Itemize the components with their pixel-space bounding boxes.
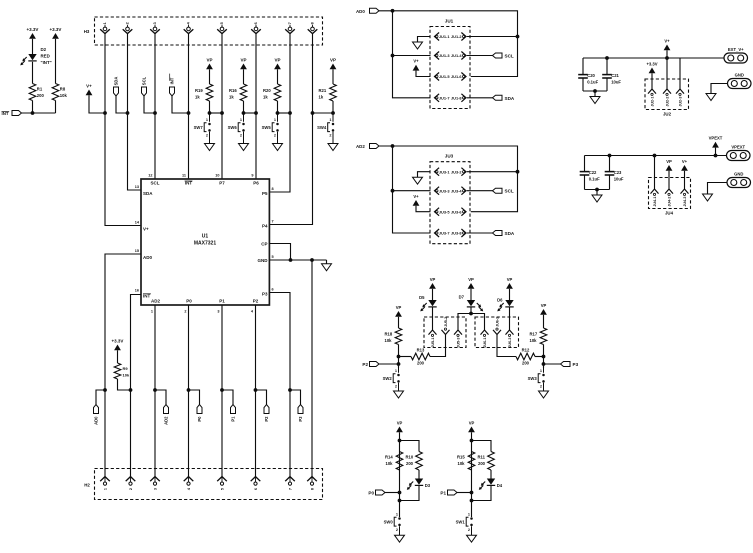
wire row4 right to SDA xyxy=(467,232,493,234)
resistor R21 1k xyxy=(330,84,337,101)
svg-text:JU5-1: JU5-1 xyxy=(431,338,435,348)
svg-text:1: 1 xyxy=(274,118,276,122)
wire xyxy=(471,470,473,517)
svg-text:+3.3V: +3.3V xyxy=(112,338,124,343)
capacitor C23 10uF xyxy=(609,156,611,172)
svg-text:2: 2 xyxy=(129,488,133,490)
junction xyxy=(103,388,107,392)
svg-text:2: 2 xyxy=(206,134,208,138)
svg-text:10k: 10k xyxy=(386,461,394,466)
svg-text:3: 3 xyxy=(217,310,219,314)
JU3 pin 4 xyxy=(461,187,466,195)
wire P3 to H2-7 xyxy=(269,293,290,477)
net stub SCL xyxy=(493,53,503,58)
svg-text:SW0: SW0 xyxy=(384,520,394,525)
svg-text:2: 2 xyxy=(126,22,130,24)
svg-text:P3: P3 xyxy=(262,292,268,297)
wire row4 right to SDA xyxy=(467,97,493,99)
resistor R13 200 xyxy=(399,356,412,358)
resistor R19 1k xyxy=(206,84,213,101)
svg-text:10k: 10k xyxy=(530,338,538,343)
jumper JU4 xyxy=(649,178,691,209)
junction xyxy=(397,355,401,359)
svg-text:VP: VP xyxy=(206,57,212,62)
junction xyxy=(398,491,402,495)
wire P7 column xyxy=(221,45,223,179)
wire SCL column xyxy=(154,45,156,179)
wire row2 right to SCL xyxy=(467,55,493,57)
svg-text:P4: P4 xyxy=(262,224,268,229)
svg-text:VP: VP xyxy=(330,57,336,62)
junction xyxy=(187,111,191,115)
junction xyxy=(595,188,599,192)
svg-text:R17: R17 xyxy=(530,332,538,337)
svg-text:P0: P0 xyxy=(368,491,374,496)
resistor R8 10k xyxy=(52,84,59,101)
svg-text:SW2: SW2 xyxy=(383,376,393,381)
svg-text:P6: P6 xyxy=(253,181,259,186)
resistor R12 200 xyxy=(497,335,516,357)
svg-text:JU4: JU4 xyxy=(665,211,674,216)
resistor R20 1k xyxy=(274,84,281,101)
wire xyxy=(711,84,728,94)
svg-text:JU3-3: JU3-3 xyxy=(439,188,450,193)
op-amp U1 MAX7321 body xyxy=(141,179,269,305)
wire xyxy=(398,345,400,369)
wire xyxy=(430,335,446,357)
svg-text:H3: H3 xyxy=(84,29,90,34)
svg-text:GND: GND xyxy=(735,72,744,77)
wire GND row xyxy=(269,259,326,261)
JU1 pin 8 xyxy=(461,94,466,102)
junction xyxy=(187,388,191,392)
svg-text:JU3-5: JU3-5 xyxy=(439,209,450,214)
junction xyxy=(398,499,402,503)
svg-text:12: 12 xyxy=(148,174,152,178)
svg-text:6: 6 xyxy=(254,22,258,24)
net stub P0 xyxy=(189,390,200,405)
JU1 pin 3 xyxy=(435,52,440,60)
switch SW0 xyxy=(399,501,401,517)
svg-text:8: 8 xyxy=(311,22,315,24)
svg-text:VP: VP xyxy=(468,277,474,282)
svg-text:P0: P0 xyxy=(197,416,202,422)
wire V+ rail xyxy=(583,57,724,59)
H2 pin 8 xyxy=(307,477,317,482)
H2 pin 4 xyxy=(184,477,194,482)
wire xyxy=(32,101,34,114)
svg-text:C22: C22 xyxy=(589,170,597,175)
JU5 pin 2 xyxy=(442,330,450,335)
svg-text:200: 200 xyxy=(406,461,414,466)
svg-text:AD2: AD2 xyxy=(356,144,365,149)
ground xyxy=(413,177,423,184)
junction xyxy=(398,439,402,443)
svg-text:JU3-8: JU3-8 xyxy=(451,231,462,236)
svg-text:200: 200 xyxy=(37,93,45,98)
wire xyxy=(543,345,545,369)
svg-text:VP: VP xyxy=(666,159,672,164)
junction xyxy=(276,111,280,115)
svg-text:P7: P7 xyxy=(219,181,225,186)
net stub SDA xyxy=(493,231,503,236)
wire P4 column xyxy=(269,45,312,225)
net stub P3 (middle) xyxy=(544,363,561,365)
wire cap ground bus xyxy=(585,189,610,191)
svg-text:JU1-5: JU1-5 xyxy=(439,74,450,79)
wire xyxy=(55,101,57,114)
svg-text:R16: R16 xyxy=(229,88,237,93)
ground xyxy=(539,391,549,398)
svg-text:200: 200 xyxy=(417,361,425,366)
capacitor C20 0.1uF xyxy=(582,58,584,75)
svg-text:2: 2 xyxy=(274,134,276,138)
svg-text:R10: R10 xyxy=(406,455,414,460)
svg-text:2: 2 xyxy=(395,385,397,389)
JU1 pin 5 xyxy=(435,73,440,81)
resistor R10 200 xyxy=(416,452,423,471)
svg-text:0.1uF: 0.1uF xyxy=(587,80,598,85)
wire xyxy=(399,470,401,517)
svg-text:1: 1 xyxy=(151,310,153,314)
svg-text:R13: R13 xyxy=(417,348,425,353)
svg-text:SCL: SCL xyxy=(151,181,160,186)
junction xyxy=(310,258,314,262)
svg-text:SCL: SCL xyxy=(505,189,514,194)
svg-text:EXT_V+: EXT_V+ xyxy=(728,47,744,52)
wire P0 column xyxy=(188,305,190,477)
junction xyxy=(129,388,133,392)
svg-text:VP: VP xyxy=(469,420,475,425)
JU4 pin 2 xyxy=(665,189,673,194)
JU3 pin 3 xyxy=(435,187,440,195)
jumper JU6 xyxy=(475,317,519,348)
net stub SDA xyxy=(493,95,503,100)
terminal VPEXT xyxy=(727,151,751,161)
svg-text:11: 11 xyxy=(182,174,186,178)
junction xyxy=(220,388,224,392)
svg-text:VPEXT: VPEXT xyxy=(709,136,723,141)
svg-text:V+: V+ xyxy=(682,159,688,164)
JU6 pin 1 xyxy=(481,330,489,335)
svg-text:10k: 10k xyxy=(458,461,466,466)
junction xyxy=(665,56,669,60)
svg-text:R1: R1 xyxy=(37,87,43,92)
resistor R18 10k xyxy=(395,328,402,345)
JU1 pin 4 xyxy=(461,52,466,60)
svg-text:16: 16 xyxy=(135,289,139,293)
svg-text:U1: U1 xyxy=(202,234,209,240)
svg-text:SW3: SW3 xyxy=(528,376,538,381)
svg-text:JU3-1: JU3-1 xyxy=(439,169,450,174)
svg-text:VP: VP xyxy=(240,57,246,62)
svg-text:AD2: AD2 xyxy=(163,416,168,425)
header H2 xyxy=(95,469,323,500)
svg-text:0.1uF: 0.1uF xyxy=(589,177,600,182)
svg-text:SW4: SW4 xyxy=(317,125,327,130)
ground xyxy=(394,391,404,398)
ground xyxy=(706,94,716,101)
jumper JU1 xyxy=(430,27,470,109)
svg-text:200: 200 xyxy=(522,361,530,366)
wire xyxy=(596,190,598,196)
wire D7 fork xyxy=(458,314,485,331)
svg-text:V+: V+ xyxy=(664,38,670,43)
ground (U1 GND) xyxy=(322,264,332,271)
svg-text:R14: R14 xyxy=(385,455,393,460)
junction xyxy=(391,189,395,193)
capacitor C22 0.1uF xyxy=(584,156,586,172)
svg-text:2: 2 xyxy=(396,528,398,532)
JU2 pin 1 xyxy=(648,89,656,94)
svg-text:R19: R19 xyxy=(195,88,203,93)
svg-text:JU6-3: JU6-3 xyxy=(508,338,512,348)
net stub P2 xyxy=(256,390,267,405)
junction xyxy=(254,111,258,115)
svg-text:V+: V+ xyxy=(143,227,149,232)
wire branch xyxy=(400,441,420,452)
svg-text:1: 1 xyxy=(103,488,107,490)
switch SW4 xyxy=(332,113,334,122)
svg-text:SDA: SDA xyxy=(505,231,515,236)
svg-text:JU1-3: JU1-3 xyxy=(439,53,450,58)
switch SW1 xyxy=(471,501,473,517)
JU3 pin 2 xyxy=(461,168,466,176)
svg-text:C21: C21 xyxy=(611,73,619,78)
JU1 pin 1 xyxy=(435,33,440,41)
svg-text:V+: V+ xyxy=(413,59,419,64)
svg-text:5: 5 xyxy=(220,22,224,24)
JU4 pin 1 xyxy=(654,156,656,190)
H2 pin 6 xyxy=(251,477,261,482)
svg-text:JU5-3: JU5-3 xyxy=(456,338,460,348)
svg-text:SCL: SCL xyxy=(141,76,146,85)
terminal GND (top) xyxy=(728,79,752,89)
junction xyxy=(331,111,335,115)
switch SW5 xyxy=(277,113,279,122)
wire AD2 column xyxy=(154,305,156,477)
svg-text:P1: P1 xyxy=(230,416,235,422)
svg-text:1: 1 xyxy=(396,513,398,517)
jumper JU2 xyxy=(645,79,689,110)
wire AD0 column xyxy=(105,254,141,477)
junction xyxy=(542,355,546,359)
svg-text:D7: D7 xyxy=(459,295,465,300)
svg-text:D3: D3 xyxy=(425,483,431,488)
junction xyxy=(397,362,401,366)
wire xyxy=(32,62,34,84)
svg-text:10uF: 10uF xyxy=(611,80,621,85)
ground xyxy=(703,194,713,201)
svg-text:INT: INT xyxy=(169,77,174,84)
svg-text:1: 1 xyxy=(103,22,107,24)
wire xyxy=(326,260,328,264)
svg-text:H2: H2 xyxy=(84,483,90,488)
net stub P3 (below chip) xyxy=(290,390,301,405)
svg-text:D2: D2 xyxy=(41,47,47,52)
svg-text:R20: R20 xyxy=(263,88,271,93)
wire xyxy=(209,101,211,113)
junction xyxy=(288,388,292,392)
svg-text:GND: GND xyxy=(734,171,743,176)
wire row1 left ground branch xyxy=(418,172,431,178)
jumper JU3 xyxy=(430,162,470,244)
svg-text:VP: VP xyxy=(396,305,402,310)
wire VP rail xyxy=(585,155,727,157)
svg-text:2: 2 xyxy=(540,385,542,389)
junction xyxy=(391,9,395,13)
svg-text:+3.3V: +3.3V xyxy=(50,27,62,32)
junction xyxy=(103,111,107,115)
svg-text:JU2-3: JU2-3 xyxy=(678,97,682,107)
wire xyxy=(400,486,420,501)
svg-text:VP: VP xyxy=(397,420,403,425)
svg-text:200: 200 xyxy=(478,461,486,466)
svg-text:P0: P0 xyxy=(186,299,192,304)
junction xyxy=(153,388,157,392)
junction xyxy=(714,154,718,158)
svg-text:JU1-6: JU1-6 xyxy=(451,74,462,79)
svg-text:2: 2 xyxy=(329,134,331,138)
wire V+ column xyxy=(105,45,141,226)
JU1 pin 7 xyxy=(435,94,440,102)
svg-text:P5: P5 xyxy=(262,191,268,196)
switch SW3 xyxy=(543,364,545,373)
junction xyxy=(254,388,258,392)
svg-text:5: 5 xyxy=(220,488,224,490)
junction xyxy=(391,54,395,58)
svg-text:VP: VP xyxy=(507,277,513,282)
svg-text:SW7: SW7 xyxy=(194,125,204,130)
svg-text:SDA: SDA xyxy=(143,191,153,196)
svg-text:C23: C23 xyxy=(614,170,622,175)
svg-text:JU5-2: JU5-2 xyxy=(444,317,448,327)
svg-text:"INT": "INT" xyxy=(41,60,52,65)
svg-text:10k: 10k xyxy=(385,338,393,343)
JU4 pin 3 xyxy=(681,189,689,194)
wire GND to H2-8 xyxy=(311,260,313,477)
junction xyxy=(605,56,609,60)
JU3 pin 5 xyxy=(435,208,440,216)
resistor R1 200 xyxy=(29,84,36,101)
wire row1 left ground branch xyxy=(418,37,431,43)
svg-text:D6: D6 xyxy=(497,298,503,303)
resistor R11 200 xyxy=(488,452,495,471)
svg-text:JU2-2: JU2-2 xyxy=(665,97,669,107)
junction xyxy=(220,111,224,115)
wire branch xyxy=(472,441,492,452)
svg-text:JU4-1: JU4-1 xyxy=(653,197,657,207)
wire xyxy=(332,101,334,113)
wire INT node xyxy=(22,112,56,114)
svg-text:R15: R15 xyxy=(457,455,465,460)
H2 pin 3 xyxy=(150,477,160,482)
svg-text:1: 1 xyxy=(206,118,208,122)
wire xyxy=(594,91,596,97)
svg-text:+3.3V: +3.3V xyxy=(646,61,657,66)
JU5 pin 1 xyxy=(429,330,437,335)
net stub AD2 xyxy=(155,390,166,405)
svg-text:SW1: SW1 xyxy=(456,520,466,525)
junction xyxy=(311,111,315,115)
wire row2 left xyxy=(393,190,431,192)
svg-text:AD2: AD2 xyxy=(151,299,160,304)
junction xyxy=(469,312,473,316)
wire CP to GND xyxy=(269,244,290,261)
JU3 pin 8 xyxy=(461,229,466,237)
svg-text:JU1-2: JU1-2 xyxy=(451,34,462,39)
H2 pin 2 xyxy=(126,477,136,482)
junction xyxy=(516,35,520,39)
svg-text:2: 2 xyxy=(184,310,186,314)
junction xyxy=(542,362,546,366)
svg-text:JU3-4: JU3-4 xyxy=(451,188,462,193)
svg-text:15: 15 xyxy=(135,249,139,253)
svg-text:3: 3 xyxy=(153,22,157,24)
ground xyxy=(395,535,405,542)
svg-text:P3: P3 xyxy=(298,416,303,422)
svg-text:7: 7 xyxy=(288,22,292,24)
svg-text:SCL: SCL xyxy=(505,54,514,59)
wire xyxy=(470,308,472,314)
svg-text:P2: P2 xyxy=(362,362,368,367)
wire top xyxy=(379,11,518,77)
terminal GND (bottom) xyxy=(727,178,751,188)
svg-text:10k: 10k xyxy=(123,373,130,378)
junction xyxy=(653,154,657,158)
junction xyxy=(31,111,35,115)
svg-text:3: 3 xyxy=(153,488,157,490)
resistor R15 10k xyxy=(468,452,475,471)
LED D4 xyxy=(490,470,492,479)
svg-text:10: 10 xyxy=(215,174,219,178)
svg-text:VP: VP xyxy=(274,57,280,62)
svg-text:1: 1 xyxy=(468,513,470,517)
junction xyxy=(288,111,292,115)
junction xyxy=(242,111,246,115)
svg-text:1k: 1k xyxy=(195,95,200,100)
terminal EXT_V+ xyxy=(724,53,748,63)
wire INT column (pin16) xyxy=(131,295,142,477)
svg-text:P1: P1 xyxy=(440,491,446,496)
capacitor C21 10uF xyxy=(606,58,608,75)
junction xyxy=(470,491,474,495)
svg-text:V+: V+ xyxy=(86,83,92,88)
svg-text:R12: R12 xyxy=(522,348,530,353)
svg-text:10uF: 10uF xyxy=(614,177,624,182)
ground xyxy=(328,144,338,151)
wire xyxy=(472,486,492,501)
junction xyxy=(289,258,293,262)
junction xyxy=(126,111,130,115)
svg-text:8: 8 xyxy=(310,488,314,490)
svg-text:AD0: AD0 xyxy=(143,255,152,260)
svg-text:6: 6 xyxy=(254,488,258,490)
junction xyxy=(470,499,474,503)
svg-text:D4: D4 xyxy=(497,483,503,488)
svg-text:P2: P2 xyxy=(264,416,269,422)
svg-text:JU1-7: JU1-7 xyxy=(439,95,450,100)
svg-text:JU4-2: JU4-2 xyxy=(667,197,671,207)
svg-text:1: 1 xyxy=(395,369,397,373)
net stub SCL xyxy=(493,188,503,193)
wire xyxy=(277,101,279,113)
svg-text:CP: CP xyxy=(261,242,267,247)
JU1 pin 2 xyxy=(461,33,466,41)
svg-text:RED: RED xyxy=(41,54,50,59)
H2 pin 5 xyxy=(217,477,227,482)
svg-text:JU3-7: JU3-7 xyxy=(439,231,450,236)
